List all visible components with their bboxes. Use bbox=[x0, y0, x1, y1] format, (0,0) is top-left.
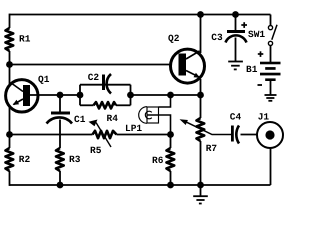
node H junction dot (top rail / Q2) bbox=[197, 11, 204, 18]
capacitor C2 bbox=[102, 74, 111, 94]
plus sign C3 bbox=[241, 22, 247, 28]
svg-text:C2: C2 bbox=[88, 72, 100, 83]
wire lamp mid lead bbox=[147, 115, 171, 135]
wire y134.5 left of R5 bbox=[10, 134, 93, 136]
wire Q1 base bbox=[30, 94, 80, 96]
svg-text:R2: R2 bbox=[19, 154, 31, 165]
node J junction dot (R7 bottom / ground) bbox=[197, 182, 204, 189]
node K junction dot (C3 top rail) bbox=[232, 11, 239, 18]
svg-text:SW1: SW1 bbox=[248, 29, 265, 40]
wire combo top branch bbox=[80, 84, 131, 86]
capacitor C4 bbox=[231, 126, 239, 144]
capacitor C1 bbox=[47, 95, 73, 148]
minus sign B1 bbox=[258, 84, 263, 86]
svg-text:LP1: LP1 bbox=[125, 123, 142, 134]
svg-text:R4: R4 bbox=[107, 113, 119, 124]
node E junction dot (combo right) bbox=[127, 92, 134, 99]
trimmer arrow R5 bbox=[89, 120, 112, 148]
switch SW1 bbox=[268, 15, 277, 46]
lamp LP1 bbox=[139, 107, 159, 124]
wire R7 bottom bbox=[200, 141, 202, 185]
node D junction dot (combo left) bbox=[77, 92, 84, 99]
resistor R1 bbox=[6, 28, 14, 51]
wire combo bottom branch right bbox=[116, 104, 131, 106]
svg-text:C4: C4 bbox=[230, 111, 242, 122]
node C junction dot (C1 top) bbox=[57, 92, 64, 99]
svg-text:J1: J1 bbox=[258, 111, 270, 122]
capacitor C3 bbox=[226, 15, 247, 43]
ground C3 bbox=[228, 38, 243, 70]
wire node E to Q2 emitter column bbox=[131, 94, 201, 96]
svg-text:R6: R6 bbox=[152, 155, 164, 166]
resistor R6 bbox=[167, 148, 175, 171]
node G junction dot (lamp bottom / R6 top) bbox=[167, 131, 174, 138]
wire Q2 collector up bbox=[200, 15, 202, 54]
wire R6 bottom bbox=[170, 171, 172, 185]
wire R6 top stub bbox=[170, 135, 172, 149]
wire base bus to Q2 bbox=[10, 64, 170, 66]
wire combo bottom branch left bbox=[80, 104, 94, 106]
wire Q2 emitter down bbox=[200, 79, 202, 95]
wire Q1 emitter down bbox=[9, 107, 11, 149]
wire y134.5 right of R5 bbox=[117, 134, 171, 136]
wire bottom rail bbox=[10, 184, 271, 186]
resistor R3 bbox=[56, 148, 64, 171]
node A junction dot bbox=[6, 61, 13, 68]
wiper arrow R7 bbox=[180, 119, 232, 134]
wire combo right riser bbox=[130, 85, 132, 106]
node B junction dot (left, y134.5) bbox=[6, 131, 13, 138]
wire top rail bbox=[10, 14, 271, 16]
wire J1 down to rail bbox=[270, 149, 272, 186]
resistor R2 bbox=[6, 148, 14, 171]
svg-text:C1: C1 bbox=[74, 114, 86, 125]
wire lamp top lead bbox=[159, 95, 171, 107]
node I junction dot (Q2 emitter / R7 top) bbox=[197, 92, 204, 99]
battery B1 bbox=[260, 62, 281, 81]
svg-text:C3: C3 bbox=[211, 32, 223, 43]
node F junction dot (lamp top) bbox=[167, 92, 174, 99]
wire R7 top bbox=[200, 95, 202, 118]
node R6 bottom junction dot bbox=[167, 182, 174, 189]
svg-text:R1: R1 bbox=[19, 33, 31, 44]
svg-text:R3: R3 bbox=[69, 154, 81, 165]
wire R2 bottom bbox=[9, 171, 11, 186]
resistor R5 bbox=[93, 131, 117, 138]
svg-text:Q1: Q1 bbox=[38, 74, 50, 85]
node R3 bottom junction dot bbox=[57, 182, 64, 189]
jack J1 bbox=[257, 122, 283, 148]
potentiometer R7 bbox=[197, 118, 205, 141]
svg-text:R5: R5 bbox=[90, 145, 102, 156]
wire left column top bbox=[9, 14, 11, 28]
ground B1 bbox=[265, 80, 277, 101]
wire R1 to node A bbox=[9, 51, 11, 85]
svg-text:Q2: Q2 bbox=[168, 33, 180, 44]
ground main bbox=[193, 185, 208, 204]
svg-text:R7: R7 bbox=[206, 143, 218, 154]
wire SW1 to B1 bbox=[270, 46, 272, 62]
transistor Q1 bbox=[6, 80, 38, 112]
resistor R4 bbox=[94, 102, 117, 108]
svg-text:B1: B1 bbox=[246, 64, 258, 75]
plus sign B1 bbox=[258, 51, 264, 57]
wire R3 bottom bbox=[59, 171, 61, 185]
transistor Q2 bbox=[171, 49, 205, 83]
wire C4 to J1 bbox=[241, 134, 258, 136]
wire combo left riser bbox=[79, 85, 81, 106]
